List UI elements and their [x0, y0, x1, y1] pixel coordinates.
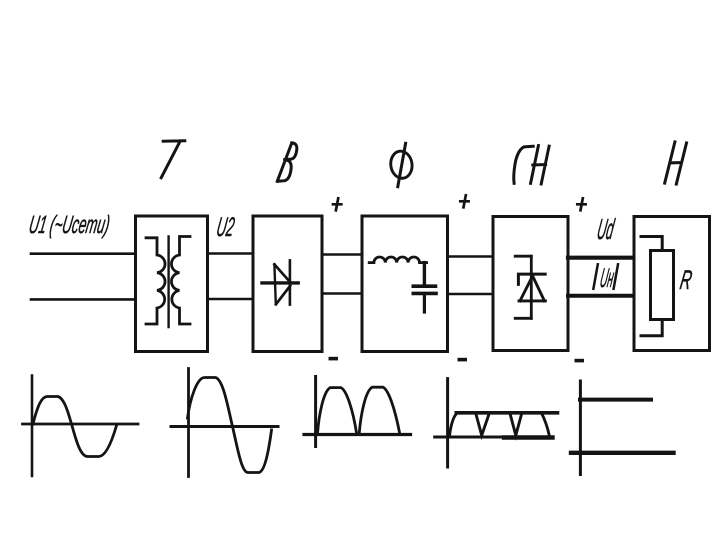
zener VD lead top	[515, 255, 531, 258]
zener VD cathode bar with hook	[518, 274, 545, 284]
waveform 2 sine	[188, 378, 272, 473]
block H	[634, 217, 710, 351]
minus sign 2	[458, 358, 468, 362]
waveform 4 ripple notch 2	[510, 414, 522, 436]
wire T-B top	[208, 252, 254, 255]
waveform 4 ripple notch 1	[476, 414, 489, 436]
label T	[161, 141, 185, 178]
label (UH) close paren	[614, 264, 618, 289]
wire CH-H bottom	[568, 294, 634, 298]
wire T-B bottom	[208, 298, 254, 301]
block T	[136, 216, 208, 352]
svg-text:U1 (~Uсети): U1 (~Uсети)	[27, 211, 112, 239]
label CH letter C	[514, 146, 533, 183]
wire F-CH top	[448, 255, 494, 258]
plus sign 3	[577, 198, 585, 210]
block CH	[493, 217, 568, 351]
label B	[277, 143, 297, 181]
diode VD triangle bottom side	[276, 286, 290, 304]
waveform 3 hump 2	[359, 387, 400, 433]
zener VD center lead	[530, 256, 533, 318]
waveform 4 ripple hump 3 right side	[542, 414, 550, 437]
diode VD triangle top side	[274, 264, 290, 282]
waveform 1 horizontal axis	[23, 423, 139, 426]
transformer core	[167, 237, 169, 328]
zener VD triangle	[519, 276, 545, 301]
minus sign 3	[575, 359, 585, 363]
waveform 4 ripple hump 1 left side	[449, 414, 456, 437]
waveform 1 sine	[33, 397, 117, 457]
plus sign 2	[460, 195, 468, 207]
diode VD cathode bar	[289, 260, 292, 304]
waveform 3 horizontal axis	[304, 433, 411, 436]
wire B-F top	[322, 253, 362, 256]
transformer primary winding	[146, 238, 165, 324]
capacitor C lead bottom	[423, 295, 426, 312]
inductor L	[369, 257, 426, 263]
plus sign 1	[333, 198, 341, 210]
waveform 3 hump 1	[318, 388, 357, 434]
waveform 4 horizontal axis	[435, 436, 553, 439]
block F	[362, 216, 448, 352]
waveform 1 vertical axis	[31, 376, 34, 477]
waveform 5 dc level line	[580, 398, 651, 402]
wire F-CH bottom	[448, 293, 494, 296]
label CH letter H	[531, 146, 550, 184]
wire CH-H top	[568, 256, 634, 260]
wire input top	[31, 252, 136, 255]
capacitor C lead top	[423, 263, 426, 284]
diode VD wire	[262, 281, 298, 284]
resistor R lead bottom	[641, 320, 662, 336]
block B	[253, 216, 322, 352]
transformer secondary winding	[171, 237, 190, 325]
minus sign 1	[329, 357, 339, 361]
waveform 2 vertical axis	[187, 369, 190, 477]
capacitor C bottom plate	[413, 292, 436, 296]
waveform 4 top level line	[456, 411, 557, 415]
capacitor C top plate	[413, 284, 435, 288]
diode VD triangle left edge	[274, 264, 275, 304]
waveform 4 vertical axis	[446, 379, 449, 467]
label (UH) open paren	[593, 264, 597, 289]
waveform 5 horizontal axis	[571, 451, 674, 455]
resistor R lead top	[641, 237, 662, 251]
label H	[665, 142, 687, 184]
waveform 4 horizontal axis thick part	[504, 435, 553, 439]
zener VD lead bottom	[515, 317, 531, 320]
wire input bottom	[31, 298, 136, 301]
resistor R body	[651, 251, 674, 320]
label F ellipse	[389, 150, 414, 180]
waveform 5 vertical axis	[579, 381, 582, 475]
wire B-F bottom	[322, 292, 362, 295]
waveform 3 vertical axis	[314, 377, 317, 447]
label F stem	[398, 143, 406, 186]
waveform 2 horizontal axis	[171, 425, 278, 428]
